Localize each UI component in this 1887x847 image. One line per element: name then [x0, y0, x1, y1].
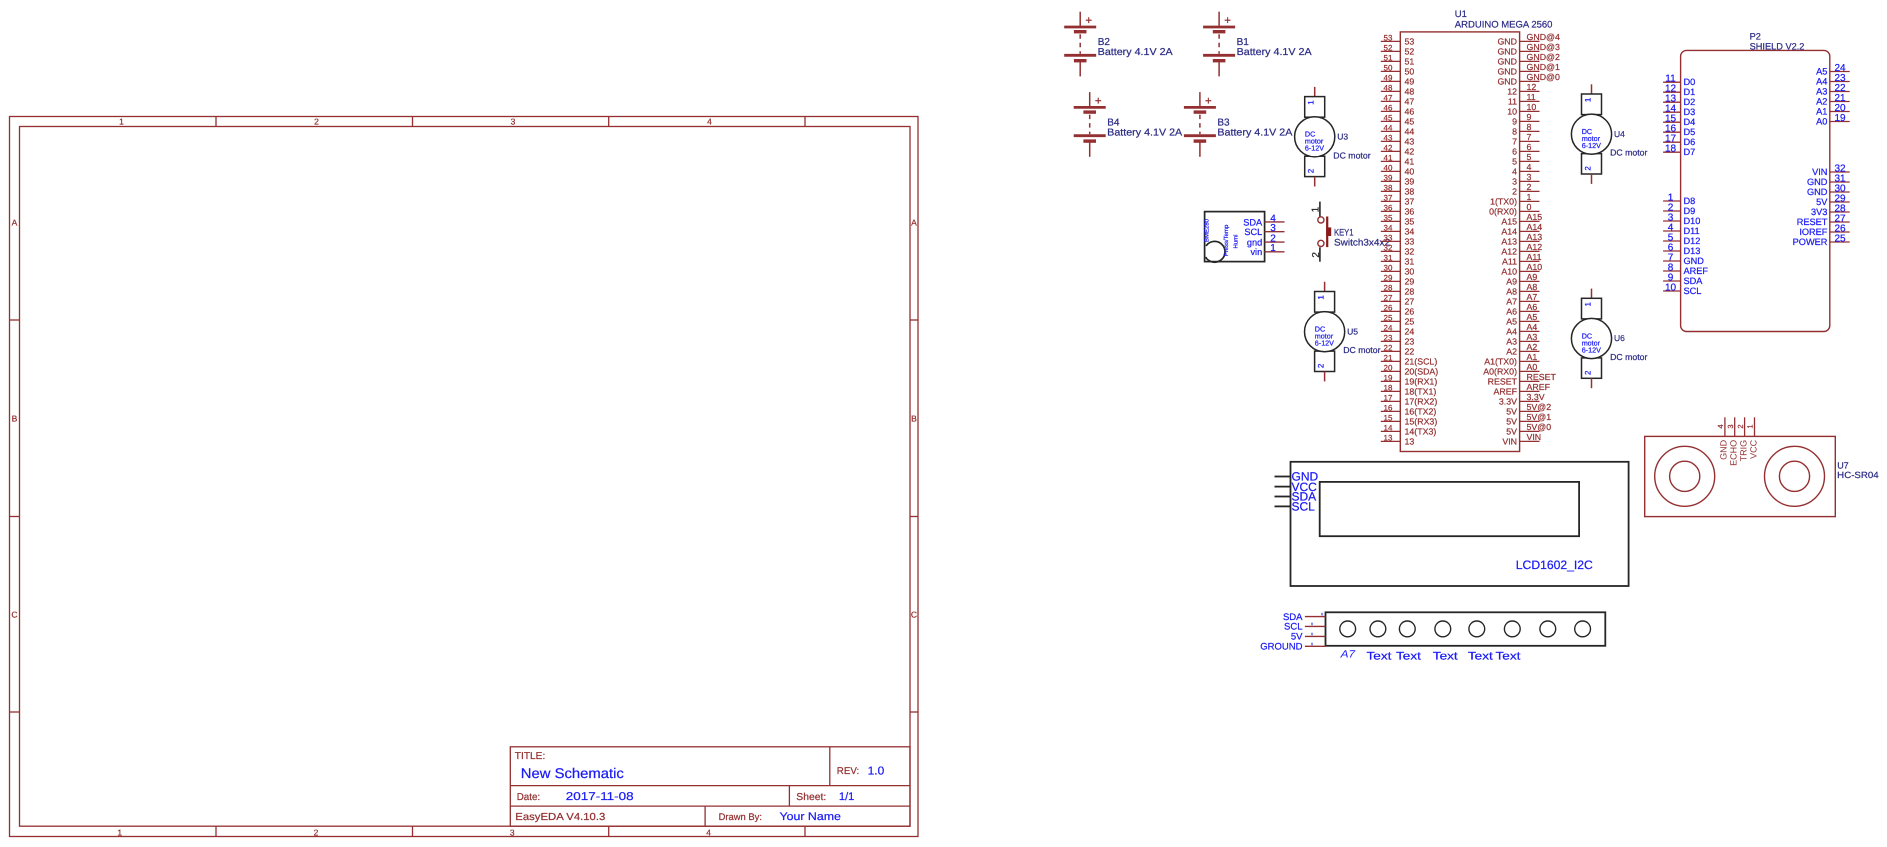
svg-text:33: 33 — [1405, 237, 1415, 247]
svg-text:A7: A7 — [1506, 297, 1517, 307]
svg-text:4: 4 — [1512, 167, 1517, 177]
svg-text:53: 53 — [1405, 37, 1415, 47]
svg-text:+: + — [1095, 95, 1102, 107]
svg-text:GND: GND — [1807, 187, 1828, 197]
svg-text:42: 42 — [1384, 144, 1393, 153]
svg-text:+: + — [1224, 15, 1231, 27]
svg-text:D1: D1 — [1684, 87, 1696, 97]
svg-text:GND: GND — [1807, 177, 1828, 187]
svg-text:D2: D2 — [1684, 97, 1696, 107]
svg-text:Battery 4.1V 2A: Battery 4.1V 2A — [1217, 127, 1292, 138]
svg-text:32: 32 — [1405, 247, 1415, 257]
svg-text:38: 38 — [1405, 187, 1415, 197]
svg-text:A10: A10 — [1501, 267, 1517, 277]
svg-text:1: 1 — [1310, 206, 1321, 212]
svg-text:0(RX0): 0(RX0) — [1489, 207, 1517, 217]
svg-text:1: 1 — [117, 827, 122, 837]
svg-text:11: 11 — [1527, 92, 1536, 102]
svg-text:51: 51 — [1384, 54, 1393, 63]
svg-text:2: 2 — [1307, 168, 1316, 173]
svg-text:1: 1 — [1583, 97, 1592, 102]
svg-text:45: 45 — [1384, 114, 1393, 123]
svg-text:C: C — [11, 610, 17, 620]
svg-text:48: 48 — [1384, 84, 1393, 93]
svg-text:IOREF: IOREF — [1799, 227, 1827, 237]
svg-text:22: 22 — [1405, 347, 1415, 357]
svg-text:A0: A0 — [1816, 116, 1827, 126]
svg-text:2: 2 — [1316, 363, 1325, 368]
svg-text:48: 48 — [1405, 87, 1415, 97]
svg-text:EasyEDA V4.10.3: EasyEDA V4.10.3 — [515, 812, 605, 823]
svg-text:Battery 4.1V 2A: Battery 4.1V 2A — [1098, 47, 1173, 58]
svg-text:5: 5 — [1527, 152, 1532, 162]
svg-text:5: 5 — [1512, 157, 1517, 167]
svg-text:30: 30 — [1405, 267, 1415, 277]
svg-text:20: 20 — [1384, 364, 1393, 373]
svg-text:ECHO: ECHO — [1729, 440, 1739, 466]
svg-text:1: 1 — [1583, 301, 1592, 306]
svg-text:RESET: RESET — [1488, 377, 1518, 387]
svg-text:A15: A15 — [1501, 217, 1517, 227]
svg-text:D7: D7 — [1684, 147, 1696, 157]
svg-text:A15: A15 — [1527, 212, 1543, 222]
svg-text:A14: A14 — [1527, 222, 1543, 232]
svg-text:TRIG: TRIG — [1738, 440, 1748, 462]
svg-text:A5: A5 — [1527, 312, 1538, 322]
svg-text:GND: GND — [1497, 37, 1517, 47]
svg-text:RESET: RESET — [1527, 372, 1557, 382]
svg-text:51: 51 — [1405, 57, 1415, 67]
svg-text:3: 3 — [1726, 424, 1735, 428]
svg-text:A4: A4 — [1816, 76, 1827, 86]
svg-text:5V: 5V — [1816, 197, 1828, 207]
svg-text:2: 2 — [314, 117, 319, 127]
svg-text:1: 1 — [1746, 424, 1755, 428]
svg-text:20(SDA): 20(SDA) — [1405, 367, 1439, 377]
svg-text:POWER: POWER — [1793, 237, 1828, 247]
svg-text:43: 43 — [1384, 134, 1393, 143]
svg-text:30: 30 — [1384, 264, 1393, 273]
svg-text:26: 26 — [1405, 307, 1415, 317]
svg-text:7: 7 — [1512, 137, 1517, 147]
svg-text:36: 36 — [1405, 207, 1415, 217]
svg-text:A5: A5 — [1506, 317, 1517, 327]
svg-text:0: 0 — [1527, 202, 1532, 212]
svg-text:6: 6 — [1512, 147, 1517, 157]
svg-text:13: 13 — [1384, 434, 1393, 443]
svg-text:LCD1602_I2C: LCD1602_I2C — [1516, 558, 1593, 572]
svg-text:16(TX2): 16(TX2) — [1405, 407, 1437, 417]
svg-text:BME280: BME280 — [1204, 218, 1211, 242]
svg-text:+: + — [1205, 95, 1212, 107]
svg-text:44: 44 — [1405, 127, 1415, 137]
svg-text:DC motor: DC motor — [1343, 345, 1380, 355]
svg-text:C: C — [911, 610, 917, 620]
svg-text:Text: Text — [1496, 650, 1521, 662]
svg-text:gnd: gnd — [1247, 238, 1262, 248]
svg-text:REV:: REV: — [837, 766, 859, 777]
svg-text:46: 46 — [1405, 107, 1415, 117]
svg-text:+: + — [1085, 15, 1092, 27]
svg-text:U1: U1 — [1455, 9, 1467, 20]
svg-text:6-12V: 6-12V — [1305, 144, 1324, 153]
svg-text:ARDUINO MEGA 2560: ARDUINO MEGA 2560 — [1455, 19, 1553, 30]
svg-text:3: 3 — [511, 117, 516, 127]
svg-text:1: 1 — [1270, 243, 1276, 254]
svg-text:GROUND: GROUND — [1260, 642, 1302, 653]
svg-text:AREF: AREF — [1527, 382, 1551, 392]
svg-text:DC motor: DC motor — [1333, 150, 1370, 160]
svg-text:5V@0: 5V@0 — [1527, 422, 1552, 432]
svg-text:3.3V: 3.3V — [1499, 397, 1517, 407]
svg-text:50: 50 — [1405, 67, 1415, 77]
svg-text:D5: D5 — [1684, 127, 1696, 137]
svg-text:15: 15 — [1384, 414, 1393, 423]
svg-text:Humi: Humi — [1233, 234, 1240, 248]
svg-text:Text: Text — [1433, 650, 1458, 662]
svg-text:A: A — [911, 218, 917, 228]
svg-text:22: 22 — [1384, 344, 1393, 353]
svg-text:19: 19 — [1384, 374, 1393, 383]
svg-text:B: B — [911, 414, 917, 424]
svg-text:27: 27 — [1384, 294, 1393, 303]
svg-text:vin: vin — [1250, 247, 1262, 257]
svg-text:17: 17 — [1384, 394, 1393, 403]
svg-text:D6: D6 — [1684, 137, 1696, 147]
svg-text:37: 37 — [1405, 197, 1415, 207]
svg-text:VIN: VIN — [1527, 432, 1542, 442]
svg-text:Switch3x4x2: Switch3x4x2 — [1334, 238, 1390, 249]
svg-text:9: 9 — [1527, 112, 1532, 122]
svg-text:45: 45 — [1405, 117, 1415, 127]
svg-text:GND@0: GND@0 — [1527, 72, 1560, 82]
svg-text:5V: 5V — [1506, 407, 1517, 417]
svg-text:42: 42 — [1405, 147, 1415, 157]
svg-text:A3: A3 — [1816, 86, 1827, 96]
svg-text:1.0: 1.0 — [868, 765, 885, 777]
svg-text:D0: D0 — [1684, 77, 1696, 87]
svg-text:A1: A1 — [1816, 106, 1827, 116]
svg-text:3: 3 — [1270, 223, 1276, 234]
svg-text:A4: A4 — [1506, 327, 1517, 337]
svg-text:Sheet:: Sheet: — [796, 792, 826, 803]
svg-text:B: B — [12, 414, 18, 424]
svg-text:47: 47 — [1405, 97, 1415, 107]
svg-text:34: 34 — [1384, 224, 1393, 233]
svg-text:14: 14 — [1384, 424, 1393, 433]
svg-text:D9: D9 — [1684, 206, 1696, 216]
svg-text:39: 39 — [1405, 177, 1415, 187]
svg-text:Text: Text — [1468, 650, 1493, 662]
svg-text:9: 9 — [1512, 117, 1517, 127]
svg-text:A2: A2 — [1527, 342, 1538, 352]
svg-text:SDA: SDA — [1243, 217, 1263, 227]
svg-text:Press/Temp: Press/Temp — [1223, 224, 1230, 256]
svg-text:18(TX1): 18(TX1) — [1405, 387, 1437, 397]
svg-text:28: 28 — [1384, 284, 1393, 293]
svg-text:A13: A13 — [1501, 237, 1517, 247]
svg-text:3: 3 — [1512, 177, 1517, 187]
svg-text:1: 1 — [1316, 295, 1325, 300]
svg-text:10: 10 — [1527, 102, 1537, 112]
svg-text:A8: A8 — [1506, 287, 1517, 297]
svg-text:D13: D13 — [1684, 246, 1701, 256]
svg-text:DC motor: DC motor — [1610, 352, 1647, 362]
svg-text:44: 44 — [1384, 124, 1393, 133]
svg-text:A4: A4 — [1527, 322, 1538, 332]
svg-text:37: 37 — [1384, 194, 1393, 203]
svg-text:1: 1 — [1307, 100, 1316, 105]
svg-text:Text: Text — [1396, 650, 1421, 662]
svg-text:2017-11-08: 2017-11-08 — [566, 791, 634, 803]
svg-text:D4: D4 — [1684, 117, 1696, 127]
svg-text:5V: 5V — [1506, 427, 1517, 437]
svg-text:A10: A10 — [1527, 262, 1543, 272]
svg-text:A0(RX0): A0(RX0) — [1483, 367, 1517, 377]
svg-text:15(RX3): 15(RX3) — [1405, 417, 1438, 427]
svg-text:49: 49 — [1405, 77, 1415, 87]
svg-text:P2: P2 — [1750, 32, 1761, 42]
svg-text:TITLE:: TITLE: — [515, 751, 546, 762]
svg-text:GND@4: GND@4 — [1527, 32, 1560, 42]
svg-text:A3: A3 — [1527, 332, 1538, 342]
svg-text:GND: GND — [1684, 256, 1705, 266]
svg-text:3V3: 3V3 — [1811, 207, 1827, 217]
svg-text:3: 3 — [1527, 172, 1532, 182]
svg-text:U4: U4 — [1614, 129, 1625, 139]
svg-text:25: 25 — [1384, 314, 1393, 323]
svg-text:3.3V: 3.3V — [1527, 392, 1545, 402]
svg-text:A11: A11 — [1502, 257, 1517, 267]
svg-text:VIN: VIN — [1812, 167, 1827, 177]
svg-text:8: 8 — [1527, 122, 1532, 132]
svg-text:53: 53 — [1384, 34, 1393, 43]
svg-text:2: 2 — [1311, 252, 1322, 258]
svg-text:25: 25 — [1405, 317, 1415, 327]
svg-text:RESET: RESET — [1797, 217, 1828, 227]
svg-text:GND: GND — [1497, 77, 1517, 87]
svg-text:17(RX2): 17(RX2) — [1405, 397, 1438, 407]
svg-text:5V@2: 5V@2 — [1527, 402, 1552, 412]
svg-text:4: 4 — [1527, 162, 1532, 172]
svg-text:DC motor: DC motor — [1610, 148, 1647, 158]
svg-text:D3: D3 — [1684, 107, 1696, 117]
svg-text:New Schematic: New Schematic — [521, 765, 624, 781]
svg-text:D11: D11 — [1684, 226, 1700, 236]
svg-text:Text: Text — [1367, 650, 1392, 662]
svg-text:A2: A2 — [1506, 347, 1517, 357]
svg-text:26: 26 — [1384, 304, 1393, 313]
svg-text:A14: A14 — [1501, 227, 1517, 237]
svg-text:GND: GND — [1719, 439, 1729, 460]
svg-text:43: 43 — [1405, 137, 1415, 147]
svg-text:52: 52 — [1384, 44, 1393, 53]
svg-text:4: 4 — [1716, 424, 1725, 428]
svg-text:A11: A11 — [1527, 252, 1542, 262]
svg-text:A6: A6 — [1506, 307, 1517, 317]
svg-text:5V: 5V — [1506, 417, 1517, 427]
svg-text:10: 10 — [1507, 107, 1517, 117]
svg-text:A13: A13 — [1527, 232, 1543, 242]
svg-text:3: 3 — [510, 827, 515, 837]
svg-text:2: 2 — [1583, 166, 1592, 171]
svg-text:A0: A0 — [1527, 362, 1538, 372]
svg-text:1/1: 1/1 — [839, 791, 855, 803]
svg-text:14(TX3): 14(TX3) — [1405, 427, 1437, 437]
svg-text:13: 13 — [1405, 437, 1415, 447]
svg-text:23: 23 — [1405, 337, 1415, 347]
svg-text:GND: GND — [1497, 57, 1517, 67]
svg-text:36: 36 — [1384, 204, 1393, 213]
svg-text:Your Name: Your Name — [780, 811, 841, 823]
svg-text:A12: A12 — [1501, 247, 1517, 257]
svg-text:11: 11 — [1508, 97, 1517, 107]
svg-text:2: 2 — [1736, 424, 1745, 428]
svg-text:5V@1: 5V@1 — [1527, 412, 1552, 422]
svg-text:16: 16 — [1384, 404, 1393, 413]
svg-text:A2: A2 — [1816, 96, 1827, 106]
svg-text:A7: A7 — [1339, 649, 1356, 661]
svg-text:35: 35 — [1405, 217, 1415, 227]
svg-text:1: 1 — [1527, 192, 1532, 202]
svg-text:D10: D10 — [1684, 216, 1701, 226]
svg-text:49: 49 — [1384, 74, 1393, 83]
svg-text:19(RX1): 19(RX1) — [1405, 377, 1438, 387]
svg-text:6-12V: 6-12V — [1315, 339, 1334, 348]
svg-text:31: 31 — [1405, 257, 1415, 267]
svg-text:A7: A7 — [1527, 292, 1538, 302]
svg-text:10: 10 — [1665, 282, 1677, 293]
svg-text:A12: A12 — [1527, 242, 1543, 252]
svg-text:A6: A6 — [1527, 302, 1538, 312]
svg-text:12: 12 — [1507, 87, 1517, 97]
svg-text:2: 2 — [314, 827, 319, 837]
svg-text:12: 12 — [1527, 82, 1537, 92]
svg-text:28: 28 — [1405, 287, 1415, 297]
svg-text:GND: GND — [1497, 67, 1517, 77]
svg-text:41: 41 — [1405, 157, 1415, 167]
svg-text:7: 7 — [1527, 132, 1532, 142]
svg-text:4: 4 — [707, 117, 712, 127]
svg-text:21: 21 — [1384, 354, 1393, 363]
svg-text:AREF: AREF — [1494, 387, 1518, 397]
svg-text:SHIELD V2.2: SHIELD V2.2 — [1750, 41, 1805, 51]
svg-text:35: 35 — [1384, 214, 1393, 223]
svg-text:1: 1 — [119, 117, 124, 127]
svg-text:GND@2: GND@2 — [1527, 52, 1560, 62]
svg-text:U5: U5 — [1347, 326, 1358, 336]
svg-text:A1: A1 — [1527, 352, 1538, 362]
svg-text:31: 31 — [1384, 254, 1393, 263]
svg-text:32: 32 — [1384, 244, 1393, 253]
svg-text:Drawn By:: Drawn By: — [719, 812, 762, 823]
svg-text:D12: D12 — [1684, 236, 1701, 246]
svg-text:38: 38 — [1384, 184, 1393, 193]
svg-text:46: 46 — [1384, 104, 1393, 113]
svg-text:39: 39 — [1384, 174, 1393, 183]
svg-text:U3: U3 — [1337, 131, 1348, 141]
svg-text:A1(TX0): A1(TX0) — [1484, 357, 1517, 367]
svg-text:29: 29 — [1384, 274, 1393, 283]
svg-text:18: 18 — [1384, 384, 1393, 393]
svg-text:HC-SR04: HC-SR04 — [1837, 470, 1879, 480]
svg-text:6-12V: 6-12V — [1582, 141, 1601, 150]
svg-text:Date:: Date: — [517, 792, 541, 803]
svg-text:VCC: VCC — [1748, 439, 1758, 459]
svg-text:AREF: AREF — [1684, 266, 1709, 276]
svg-text:24: 24 — [1405, 327, 1415, 337]
svg-text:27: 27 — [1405, 297, 1415, 307]
svg-text:19: 19 — [1834, 113, 1846, 124]
svg-text:U7: U7 — [1837, 460, 1849, 470]
svg-text:GND@3: GND@3 — [1527, 42, 1560, 52]
svg-text:34: 34 — [1405, 227, 1415, 237]
svg-text:A9: A9 — [1527, 272, 1538, 282]
svg-text:SCL: SCL — [1292, 500, 1316, 514]
svg-text:2: 2 — [1512, 187, 1517, 197]
svg-text:40: 40 — [1384, 164, 1393, 173]
svg-text:6-12V: 6-12V — [1582, 345, 1601, 354]
svg-text:A9: A9 — [1506, 277, 1517, 287]
svg-text:21(SCL): 21(SCL) — [1405, 357, 1438, 367]
svg-text:Battery 4.1V 2A: Battery 4.1V 2A — [1107, 127, 1182, 138]
svg-text:SCL: SCL — [1684, 286, 1702, 296]
svg-text:4: 4 — [706, 827, 711, 837]
svg-text:2: 2 — [1527, 182, 1532, 192]
svg-text:A3: A3 — [1506, 337, 1517, 347]
svg-text:8: 8 — [1512, 127, 1517, 137]
svg-text:GND@1: GND@1 — [1527, 62, 1560, 72]
svg-text:24: 24 — [1384, 324, 1393, 333]
svg-text:41: 41 — [1384, 154, 1393, 163]
svg-text:23: 23 — [1384, 334, 1393, 343]
svg-text:SDA: SDA — [1684, 276, 1704, 286]
svg-text:6: 6 — [1527, 142, 1532, 152]
svg-text:50: 50 — [1384, 64, 1393, 73]
svg-text:A5: A5 — [1816, 66, 1827, 76]
svg-text:52: 52 — [1405, 47, 1415, 57]
svg-text:D8: D8 — [1684, 196, 1696, 206]
svg-text:GND: GND — [1497, 47, 1517, 57]
svg-text:29: 29 — [1405, 277, 1415, 287]
svg-text:VIN: VIN — [1502, 437, 1517, 447]
svg-text:A8: A8 — [1527, 282, 1538, 292]
svg-text:25: 25 — [1834, 233, 1846, 244]
svg-text:40: 40 — [1405, 167, 1415, 177]
svg-text:U6: U6 — [1614, 333, 1625, 343]
svg-text:SCL: SCL — [1244, 227, 1262, 237]
svg-text:47: 47 — [1384, 94, 1393, 103]
svg-text:33: 33 — [1384, 234, 1393, 243]
svg-text:1(TX0): 1(TX0) — [1490, 197, 1517, 207]
svg-text:2: 2 — [1583, 370, 1592, 375]
svg-text:A: A — [12, 218, 18, 228]
svg-text:18: 18 — [1665, 144, 1677, 155]
svg-text:Battery 4.1V 2A: Battery 4.1V 2A — [1237, 47, 1312, 58]
